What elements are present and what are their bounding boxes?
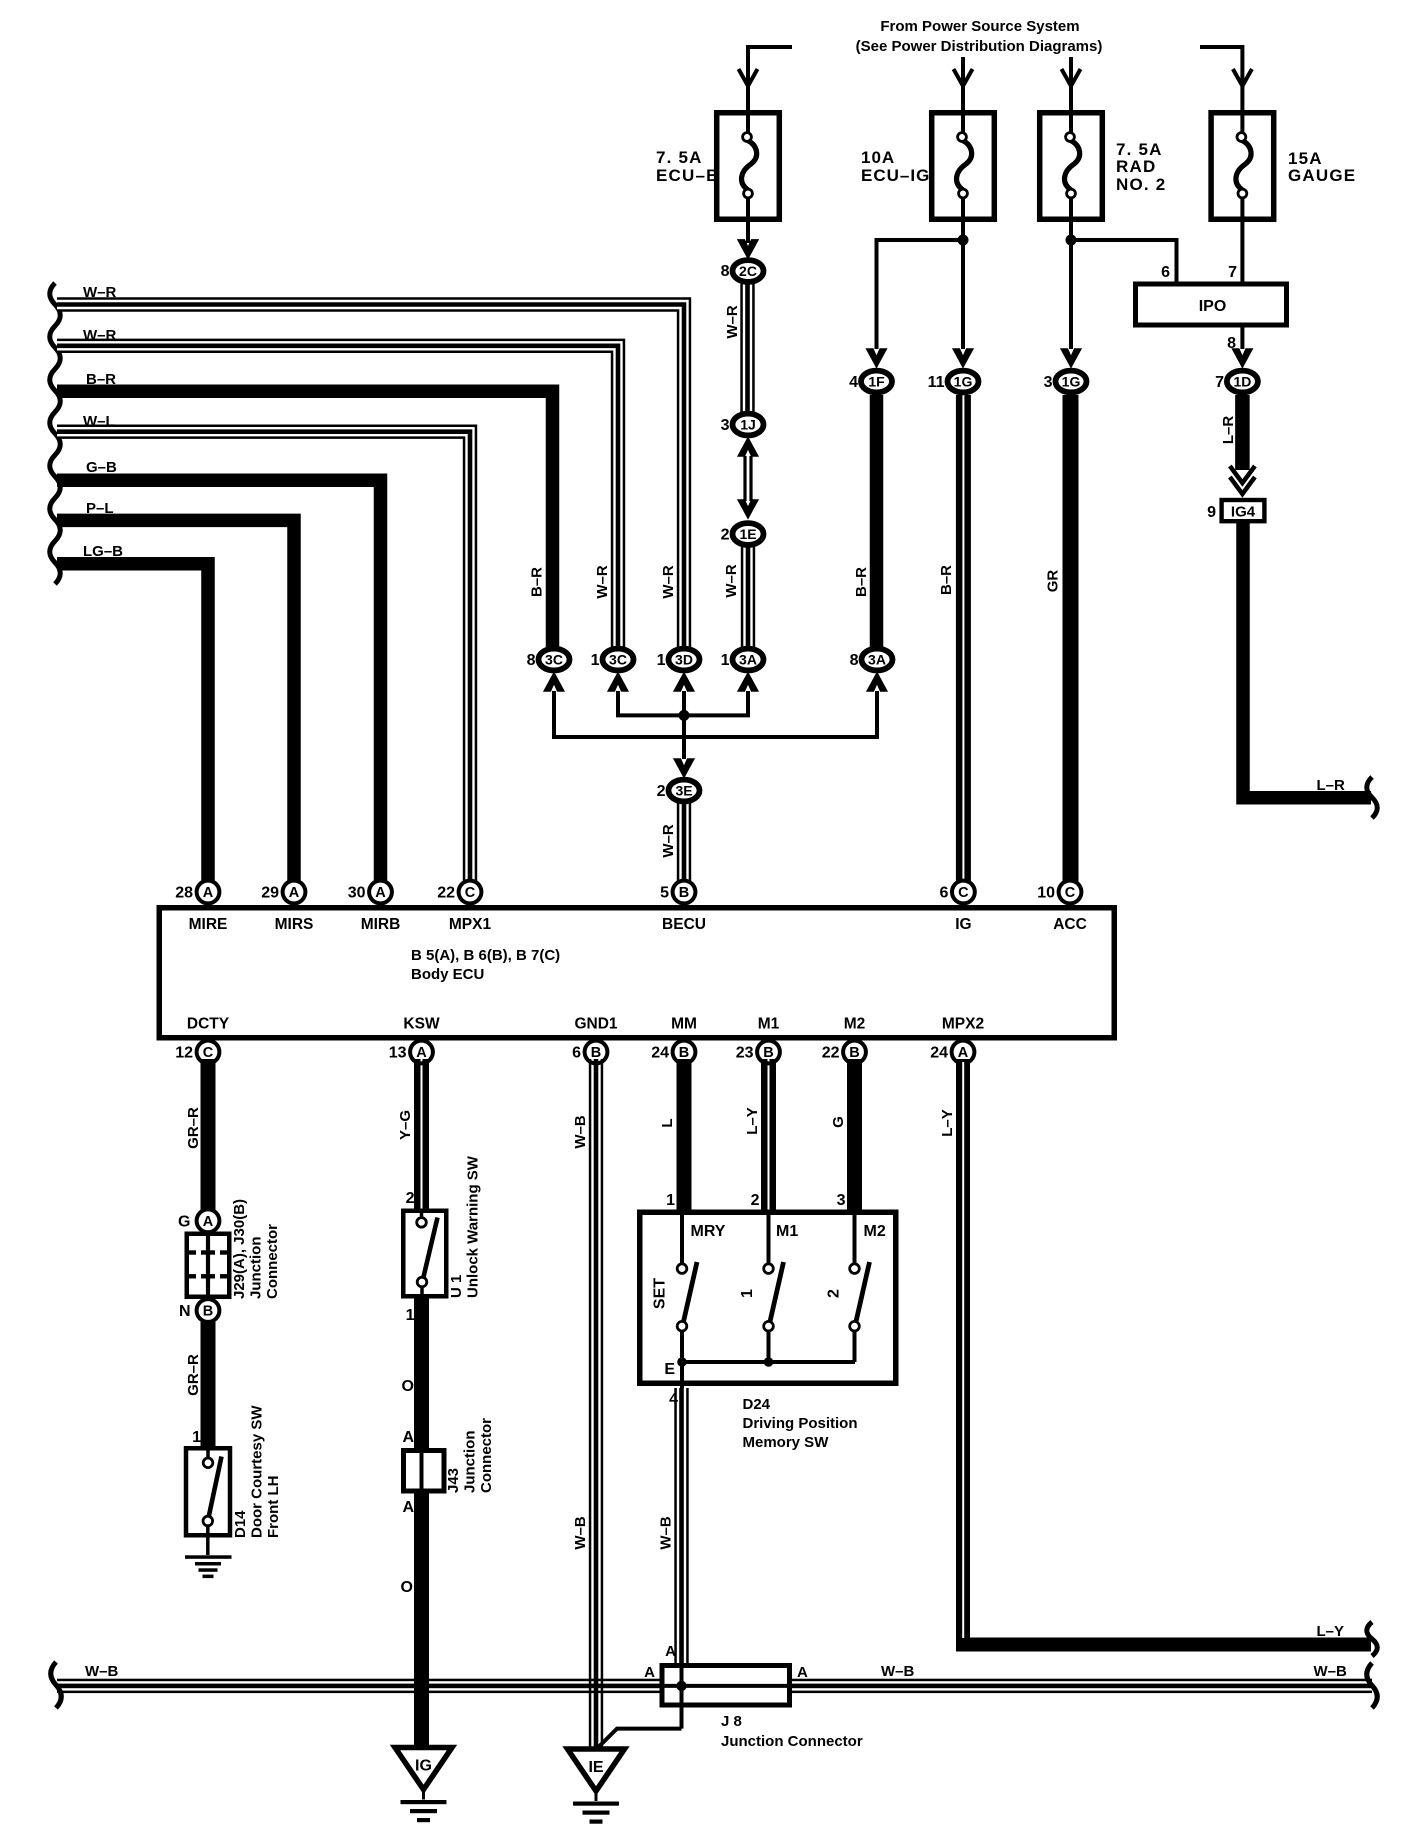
svg-text:2: 2 [751,1192,760,1209]
svg-text:W–R: W–R [660,824,677,858]
svg-text:MIRE: MIRE [189,916,228,933]
svg-text:IG: IG [415,1758,432,1775]
trunk wire to 3E [682,691,686,759]
torn-edge squiggle L-R right [1367,777,1378,818]
svg-text:A: A [375,885,386,901]
fuse 7.5A RAD NO.2 [1040,113,1103,220]
svg-text:N: N [179,1303,191,1320]
connector 3E pin 2 [669,780,700,802]
svg-text:1: 1 [739,1289,756,1298]
svg-text:2: 2 [406,1190,415,1207]
svg-text:E: E [664,1361,675,1378]
bus wire lower (3C8-3A8) [552,691,556,737]
svg-text:Front LH: Front LH [265,1476,282,1538]
svg-text:7. 5A: 7. 5A [656,148,703,167]
svg-text:B–R: B–R [853,567,870,597]
wire O U1 to J43 [414,1296,429,1450]
wire W-R 3E to BECU [677,802,680,885]
svg-text:MIRS: MIRS [275,916,314,933]
svg-text:A: A [665,1643,676,1660]
arrow into 3D [674,673,694,691]
svg-text:B–R: B–R [529,567,546,597]
svg-text:IG: IG [955,916,971,933]
wire feeder to fuse ECU-B [748,47,792,133]
svg-text:22: 22 [822,1045,840,1062]
svg-text:M1: M1 [758,1016,780,1033]
svg-text:G: G [830,1116,847,1128]
wire Y-G KSW to unlock warning switch [414,1059,421,1210]
connector 3A pin 1 [733,649,764,671]
svg-text:A: A [416,1045,427,1061]
D24 E bus [680,1360,855,1364]
torn-edge squiggle left rail [50,283,61,584]
svg-text:3E: 3E [675,783,692,799]
svg-text:P–L: P–L [86,500,114,517]
junction dot ECU-IG branch [958,235,969,246]
relay block IPO [1136,284,1287,325]
svg-text:1G: 1G [954,374,973,390]
torn-edge squiggle W-B right [1367,1663,1378,1708]
wire fuse GAUGE to IPO pin 7 [1240,243,1244,284]
svg-text:Memory SW: Memory SW [743,1434,830,1451]
svg-text:10A: 10A [861,148,895,167]
svg-text:28: 28 [175,885,193,902]
svg-text:24: 24 [930,1045,948,1062]
D24 switch element at 854.5 [853,1215,857,1263]
connector 1G pin 11 [948,371,979,393]
wire B-R 1G to IG pin [956,395,963,885]
svg-text:W–B: W–B [658,1516,675,1550]
arrow into 3C [608,673,628,691]
svg-text:7: 7 [1228,264,1237,281]
svg-text:GAUGE: GAUGE [1288,166,1356,185]
wire L-R IG4 to right edge [1243,521,1371,798]
arrow into 1E [738,500,758,518]
svg-text:DCTY: DCTY [187,1016,230,1033]
svg-text:M1: M1 [776,1223,798,1240]
svg-text:(See Power Distribution Diagra: (See Power Distribution Diagrams) [856,38,1103,55]
svg-text:L–Y: L–Y [744,1107,761,1135]
svg-text:12: 12 [175,1045,193,1062]
svg-text:B: B [203,1304,213,1320]
svg-text:L–R: L–R [1220,416,1237,445]
junction dot trunk [679,710,690,721]
wire W-R 2C to 1J [740,284,743,415]
svg-text:1: 1 [406,1307,415,1324]
svg-text:From Power Source System: From Power Source System [880,18,1079,35]
svg-text:MPX1: MPX1 [449,916,492,933]
svg-text:1E: 1E [739,526,756,542]
D24 switch element at 682 [680,1215,684,1263]
svg-text:3A: 3A [868,652,886,668]
connector 1F pin 4 [861,371,892,393]
Body ECU box [159,908,1114,1038]
svg-text:24: 24 [651,1045,669,1062]
svg-text:1: 1 [591,652,600,669]
svg-text:2: 2 [657,783,666,800]
connector 3A pin 8 [862,649,893,671]
wire IPO pin 8 to 1D [1240,325,1244,349]
svg-text:RAD: RAD [1116,157,1156,176]
svg-text:2: 2 [721,527,730,544]
svg-text:B: B [849,1045,859,1061]
wire W-B ground bus [57,1679,1372,1682]
svg-text:W–R: W–R [83,284,117,301]
svg-text:G: G [178,1214,190,1231]
svg-text:W–B: W–B [572,1516,589,1550]
junction connector J8 [662,1666,790,1706]
svg-text:IG4: IG4 [1231,504,1256,521]
svg-text:G–B: G–B [86,459,117,476]
wire W–R (shielded) [57,346,618,652]
junction connector pin B [197,1299,220,1322]
arrow into 3A [867,673,887,691]
svg-text:A: A [958,1045,969,1061]
wire W-B D24 to J8 [674,1388,677,1663]
junction connector pin A [197,1209,220,1232]
Body ECU pin 30 MIRB [369,881,392,904]
wire B–R [57,391,553,652]
svg-text:LG–B: LG–B [83,543,123,560]
svg-text:W–R: W–R [723,564,740,598]
svg-text:3: 3 [721,417,730,434]
wire B-R 1F to 3A [870,395,884,652]
ground under D14 [185,1555,232,1559]
svg-text:W–R: W–R [594,565,611,599]
connector 1J pin 3 [733,414,764,436]
wire W–R (shielded) [57,305,684,653]
fuse 7.5A ECU-B [717,113,780,220]
svg-text:1J: 1J [740,417,756,433]
svg-text:Unlock Warning SW: Unlock Warning SW [465,1155,482,1298]
wire L MM to D24 pin 1 [677,1059,692,1212]
wire GR-R to door courtesy switch [201,1322,216,1448]
svg-text:5: 5 [660,885,669,902]
svg-text:MRY: MRY [691,1223,726,1240]
svg-text:1: 1 [666,1192,675,1209]
svg-text:A: A [402,1499,414,1516]
svg-text:B: B [679,885,689,901]
svg-text:W–R: W–R [83,327,117,344]
arrow into 3A [738,673,758,691]
svg-text:3C: 3C [609,652,627,668]
wire P–L [57,520,294,885]
svg-text:U 1: U 1 [448,1275,465,1298]
Body ECU pin 10 ACC [1059,881,1082,904]
svg-text:A: A [402,1429,414,1446]
svg-text:2C: 2C [739,263,757,279]
svg-text:B–R: B–R [86,371,116,388]
svg-text:W–B: W–B [881,1663,915,1680]
svg-text:W–B: W–B [85,1663,119,1680]
connector 3D pin 1 [669,649,700,671]
svg-text:Body ECU: Body ECU [411,966,484,983]
svg-text:11: 11 [928,374,945,391]
svg-text:3D: 3D [675,652,693,668]
D24 switch element at 768.5 [767,1215,771,1263]
svg-text:B: B [591,1045,601,1061]
wire G M2 to D24 pin 3 [847,1059,862,1212]
svg-text:W–B: W–B [1314,1663,1348,1680]
wire W-B GND1 to ground IE [589,1059,592,1752]
svg-text:GR: GR [1045,570,1062,593]
svg-text:GR–R: GR–R [185,1107,202,1149]
open arrows into IG4 [1230,466,1255,483]
torn-edge squiggle L-Y right [1367,1622,1378,1656]
wire G–B [57,480,381,885]
svg-text:L–R: L–R [1317,777,1346,794]
svg-text:GND1: GND1 [574,1016,617,1033]
svg-text:Connector: Connector [264,1224,281,1299]
svg-text:Junction: Junction [462,1431,479,1494]
svg-text:W–R: W–R [660,565,677,599]
svg-text:8: 8 [850,652,859,669]
svg-text:Y–G: Y–G [397,1110,414,1140]
svg-text:B 5(A), B 6(B), B 7(C): B 5(A), B 6(B), B 7(C) [411,947,560,964]
svg-text:NO. 2: NO. 2 [1116,175,1166,194]
svg-text:2: 2 [826,1289,843,1298]
svg-text:Junction Connector: Junction Connector [721,1733,863,1750]
svg-text:6: 6 [572,1045,581,1062]
Body ECU pin 29 MIRS [283,881,306,904]
wire L-Y MPX2 to right edge [963,1059,1371,1645]
fuse 15A GAUGE [1211,113,1274,220]
svg-text:D24: D24 [743,1396,771,1413]
wire W-R 1E to 3A [741,547,744,652]
Body ECU pin 5 BECU [673,881,696,904]
svg-text:A: A [289,885,300,901]
wire O J43 to ground [414,1491,429,1750]
wire L-R 1D to IG4 [1235,395,1250,470]
svg-text:22: 22 [437,885,455,902]
bus wire upper (3C1-3A1) [616,691,620,715]
svg-text:4: 4 [849,374,858,391]
connector 1D pin 7 [1227,371,1258,393]
wire GR 1G to ACC pin [1063,395,1079,885]
svg-text:3: 3 [1044,374,1053,391]
svg-text:J43: J43 [445,1468,462,1493]
svg-text:30: 30 [348,885,366,902]
svg-text:MM: MM [671,1016,697,1033]
svg-text:3C: 3C [545,652,563,668]
svg-text:L–Y: L–Y [939,1109,956,1137]
svg-text:C: C [465,885,476,901]
wire L-Y M1 to D24 pin 2 [761,1059,768,1212]
Body ECU pin 22 MPX1 [459,881,482,904]
svg-text:B–R: B–R [938,565,955,595]
svg-text:IPO: IPO [1199,298,1227,315]
svg-text:SET: SET [652,1278,669,1309]
svg-text:IE: IE [588,1759,603,1776]
fuse 10A ECU-IG [932,113,995,220]
svg-text:C: C [958,885,969,901]
svg-text:1: 1 [192,1429,201,1446]
arrow into 1J [738,438,758,456]
svg-text:MPX2: MPX2 [942,1016,984,1033]
svg-text:1D: 1D [1233,374,1251,390]
connector 3C pin 8 [539,649,570,671]
svg-text:9: 9 [1207,504,1216,521]
svg-text:3A: 3A [739,652,757,668]
wire 1J to 1E [743,456,746,501]
svg-text:7: 7 [1215,374,1224,391]
svg-text:L–Y: L–Y [1317,1623,1345,1640]
svg-text:29: 29 [261,885,279,902]
svg-text:A: A [644,1664,655,1681]
connector 2C [733,260,764,282]
wire fuse RAD down to 1G with branch to IPO pin 6 [1069,243,1073,349]
connector 1E pin 2 [733,523,764,545]
svg-text:O: O [401,1579,413,1596]
ground IG [395,1748,452,1790]
svg-text:M2: M2 [864,1223,886,1240]
wire GR-R DCTY to junction connector [201,1059,216,1210]
wire feeder to fuse ECU-IG [961,57,965,133]
junction dot J8 [676,1681,686,1691]
svg-text:ECU–IG: ECU–IG [861,166,930,185]
svg-text:Door Courtesy SW: Door Courtesy SW [249,1405,266,1538]
svg-text:D14: D14 [232,1510,249,1538]
svg-text:W–R: W–R [724,305,741,339]
svg-text:Connector: Connector [478,1418,495,1493]
svg-text:8: 8 [527,652,536,669]
connector IG4 pin 9 [1222,500,1265,521]
switch D24 Driving Position Memory SW [640,1212,896,1383]
svg-text:J 8: J 8 [721,1713,742,1730]
wire fuse ECU-B to 2C [738,240,758,258]
switch U1 Unlock Warning SW [403,1211,446,1297]
Body ECU pin 28 MIRE [197,881,220,904]
arrow into 3E [674,759,694,777]
svg-text:6: 6 [1161,264,1170,281]
wire J8 to ground IE [598,1729,682,1748]
switch D14 Door Courtesy SW Front LH [186,1448,230,1535]
svg-text:13: 13 [389,1045,407,1062]
svg-text:KSW: KSW [403,1016,440,1033]
ground IE [568,1749,625,1791]
svg-text:B: B [679,1045,689,1061]
junction connector J29(A) J30(B) [187,1234,230,1297]
svg-text:O: O [402,1378,414,1395]
svg-text:10: 10 [1037,885,1055,902]
svg-text:M2: M2 [844,1016,866,1033]
svg-text:23: 23 [736,1045,754,1062]
svg-text:A: A [203,885,214,901]
svg-text:W–L: W–L [83,413,115,430]
junction dot RAD branch [1066,235,1077,246]
svg-text:W–B: W–B [572,1115,589,1149]
wire fuse ECU-IG down to 1G with branch to 1F [961,243,965,349]
svg-text:1: 1 [657,652,666,669]
svg-text:ACC: ACC [1053,916,1087,933]
svg-text:A: A [203,1214,214,1230]
wire W–L (shielded) [57,432,470,885]
svg-text:ECU–B: ECU–B [656,166,720,185]
connector 1G pin 3 [1056,371,1087,393]
svg-text:MIRB: MIRB [361,916,401,933]
wire feeder to fuse RAD [1069,57,1073,133]
svg-text:C: C [1065,885,1076,901]
svg-text:Driving Position: Driving Position [743,1415,858,1432]
svg-text:C: C [203,1045,214,1061]
svg-text:3: 3 [837,1192,846,1209]
svg-text:1F: 1F [868,374,885,390]
connector 3C pin 1 [603,649,634,671]
svg-text:8: 8 [721,263,730,280]
svg-text:Junction: Junction [248,1237,265,1300]
svg-text:1G: 1G [1062,374,1081,390]
svg-text:6: 6 [939,885,948,902]
Body ECU pin 6 IG [952,881,975,904]
svg-text:GR–R: GR–R [185,1354,202,1396]
svg-text:J29(A), J30(B): J29(A), J30(B) [231,1199,248,1299]
wire feeder to fuse GAUGE [1200,47,1242,133]
arrow into 3C [544,673,564,691]
junction connector J43 [404,1451,445,1492]
svg-text:A: A [797,1664,808,1681]
wire LG–B [57,564,208,885]
svg-text:1: 1 [721,652,730,669]
svg-text:L: L [659,1118,676,1127]
svg-text:B: B [763,1045,773,1061]
svg-text:BECU: BECU [662,916,706,933]
